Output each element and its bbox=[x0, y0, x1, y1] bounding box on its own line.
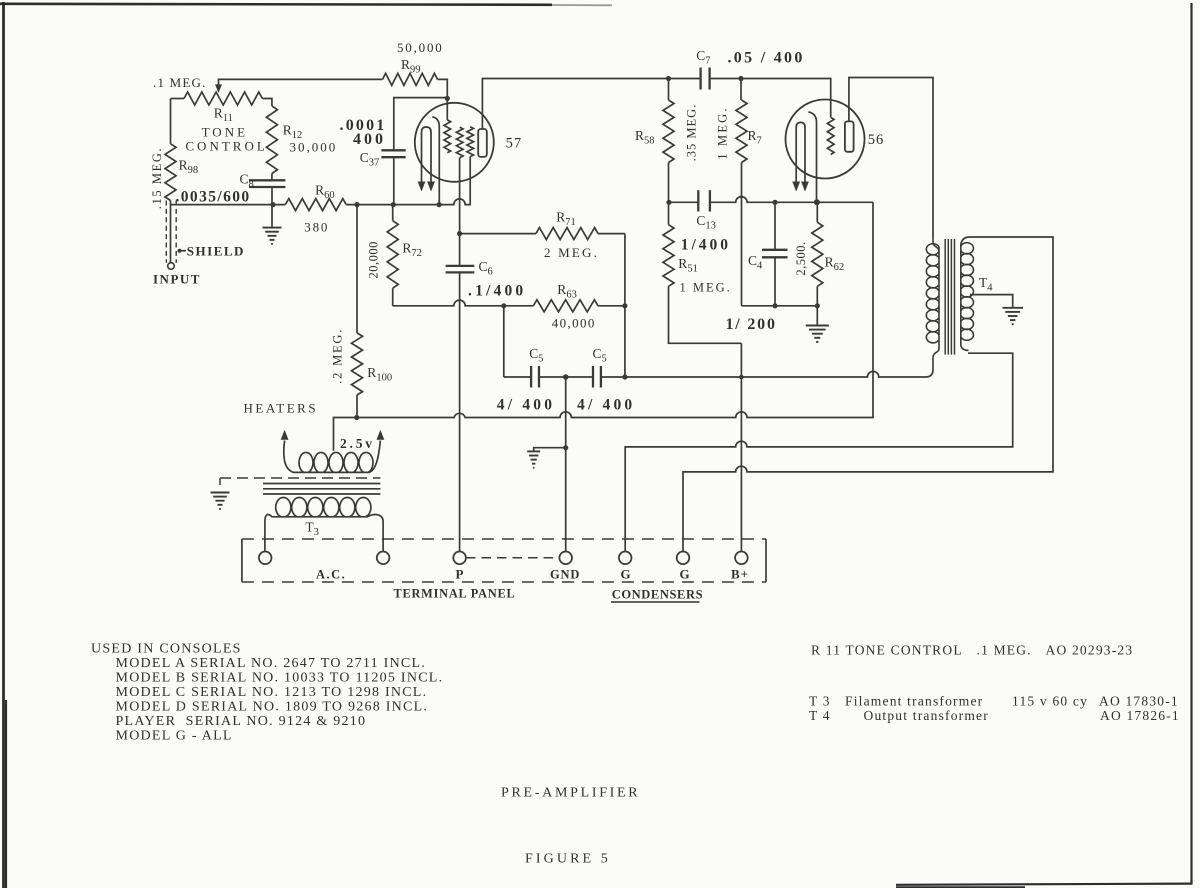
node: junction R100 / heater bus bbox=[354, 415, 359, 420]
svg-text:400: 400 bbox=[353, 131, 386, 148]
ground below R62 bbox=[806, 306, 829, 342]
svg-text:CONTROL: CONTROL bbox=[185, 139, 267, 154]
wire R63 right to vertical bbox=[598, 305, 625, 307]
FIGURE 5 caption bbox=[525, 852, 611, 867]
T4 label bbox=[979, 275, 993, 294]
C5 first label bbox=[529, 346, 543, 365]
svg-text:1/400: 1/400 bbox=[681, 237, 731, 254]
CONDENSERS label bbox=[611, 588, 703, 603]
R98 label bbox=[179, 158, 199, 177]
svg-text:R 11 TONE CONTROL .1 MEG.: R 11 TONE CONTROL .1 MEG. AO 20293-23 bbox=[811, 643, 1133, 658]
main grid bus wire (left) bbox=[171, 157, 471, 205]
svg-text:G: G bbox=[680, 567, 690, 582]
node: junction cathode 57 / grid bus bbox=[437, 202, 442, 207]
potentiometer R11 (tone control) bbox=[171, 92, 272, 144]
wire R99 right end down to grid node of tube 57 bbox=[438, 79, 448, 96]
svg-text:T4: T4 bbox=[979, 275, 993, 294]
SHIELD label bbox=[187, 243, 245, 258]
svg-text:USED IN CONSOLES: USED IN CONSOLES bbox=[91, 642, 242, 657]
svg-text:R12: R12 bbox=[283, 123, 303, 142]
transformer T3 core bbox=[263, 484, 380, 495]
resistor R71 bbox=[536, 228, 598, 240]
node: junction R100 / grid bus bbox=[354, 202, 359, 207]
wire 1/200 row bbox=[742, 305, 818, 307]
transformer T3 2.5v winding bbox=[281, 430, 385, 473]
node: junction R58/R51/C13 bbox=[666, 200, 671, 205]
node: junction C4 bottom bbox=[772, 303, 777, 308]
svg-text:.1 MEG.: .1 MEG. bbox=[153, 75, 207, 90]
R72 label bbox=[402, 241, 422, 260]
resistor R58 bbox=[663, 79, 674, 203]
tube 57 suppressor grid bbox=[467, 127, 474, 157]
TERMINAL PANEL label bbox=[394, 587, 516, 601]
capacitor C37 bbox=[381, 150, 405, 204]
T3 part note bbox=[809, 694, 1179, 709]
svg-text:C5: C5 bbox=[593, 346, 607, 365]
svg-text:Filament transformer: Filament transformer bbox=[845, 694, 983, 709]
svg-text:.05 / 400: .05 / 400 bbox=[728, 50, 805, 67]
A.C. label bbox=[316, 568, 346, 582]
R51 value 1 MEG. bbox=[680, 281, 732, 295]
svg-text:C8: C8 bbox=[240, 172, 254, 191]
R72 value 20,000 bbox=[367, 241, 381, 278]
used-in-consoles text block bbox=[91, 642, 443, 744]
C5 second label bbox=[593, 346, 607, 365]
resistor R60 bbox=[285, 199, 346, 211]
svg-text:T3: T3 bbox=[305, 520, 319, 539]
tube 57 plate bbox=[478, 129, 487, 157]
svg-text:TERMINAL PANEL: TERMINAL PANEL bbox=[394, 587, 516, 601]
G first label bbox=[621, 567, 631, 582]
T4 center tap to ground bbox=[970, 295, 1023, 325]
svg-text:4/ 400: 4/ 400 bbox=[577, 397, 635, 414]
resistor R7 bbox=[736, 79, 747, 306]
svg-text:G: G bbox=[621, 567, 631, 582]
wire C6 down to terminal P bbox=[459, 272, 461, 551]
svg-text:R71: R71 bbox=[556, 210, 576, 229]
svg-text:2 MEG.: 2 MEG. bbox=[544, 245, 599, 260]
resistor R98 bbox=[165, 144, 176, 201]
svg-text:C5: C5 bbox=[529, 346, 543, 365]
wire C7 to grid of tube 56 bbox=[710, 79, 831, 118]
svg-text:.0035/600: .0035/600 bbox=[176, 189, 251, 206]
wire GND riser to chassis ground bbox=[527, 448, 566, 468]
svg-text:AO 17826-1: AO 17826-1 bbox=[1100, 708, 1180, 723]
R98 value .15 MEG. bbox=[150, 147, 164, 209]
resistor R72 bbox=[387, 205, 398, 306]
capacitor C13 bbox=[698, 190, 710, 211]
P label bbox=[456, 567, 464, 582]
node: junction R62 bottom bbox=[815, 303, 820, 308]
R7 value 1 MEG. bbox=[715, 106, 729, 159]
GND label bbox=[550, 568, 580, 582]
svg-text:MODEL D SERIAL NO. 1809 TO 926: MODEL D SERIAL NO. 1809 TO 9268 INCL. bbox=[116, 700, 429, 715]
svg-text:SHIELD: SHIELD bbox=[187, 243, 245, 258]
svg-text:20,000: 20,000 bbox=[367, 241, 381, 278]
tube 56 envelope bbox=[786, 100, 865, 179]
svg-text:115 v 60 cy: 115 v 60 cy bbox=[1012, 694, 1088, 709]
C4 value 1/200 bbox=[726, 316, 777, 333]
svg-text:T 3: T 3 bbox=[809, 694, 831, 709]
svg-text:GND: GND bbox=[550, 568, 580, 582]
transformer T4 secondary winding bbox=[961, 243, 974, 351]
wire plate of 56 to T4 primary bbox=[849, 78, 933, 238]
tube 56 plate bbox=[845, 121, 854, 151]
plate rail of tube 57 to C7 bbox=[482, 79, 700, 130]
svg-text:HEATERS: HEATERS bbox=[244, 401, 319, 416]
svg-text:30,000: 30,000 bbox=[290, 140, 338, 155]
INPUT label bbox=[153, 272, 201, 287]
wire rail R72 to R63 row bbox=[393, 300, 534, 306]
svg-text:.1/400: .1/400 bbox=[468, 283, 526, 300]
svg-text:56: 56 bbox=[868, 132, 885, 148]
wire R12 to capacitor C8 bbox=[271, 174, 273, 181]
node: C5 midpoint junction bbox=[563, 374, 569, 380]
wire C5 midpoint down to GND terminal bbox=[565, 377, 567, 552]
svg-text:.2 MEG.: .2 MEG. bbox=[331, 328, 345, 384]
svg-text:A.C.: A.C. bbox=[316, 568, 346, 582]
T3 2.5v label bbox=[340, 436, 375, 451]
svg-text:PLAYER SERIAL NO. 9124 & 9210: PLAYER SERIAL NO. 9124 & 9210 bbox=[116, 714, 367, 729]
R11 part note bbox=[811, 643, 1133, 658]
wire R71/R63 right vertical to C5 bus bbox=[624, 234, 626, 377]
C13 label bbox=[696, 213, 716, 232]
resistor R63 bbox=[533, 300, 598, 312]
node: junction cathode 56 / R62 bbox=[814, 199, 820, 205]
capacitor C4 bbox=[762, 202, 788, 305]
capacitor C6 bbox=[446, 266, 475, 273]
wire R71 row bbox=[460, 233, 625, 235]
resistor R12 bbox=[266, 106, 277, 174]
svg-text:50,000: 50,000 bbox=[397, 40, 444, 55]
transformer T4 core bbox=[945, 239, 954, 355]
terminal A.C. right bbox=[377, 552, 390, 565]
svg-text:C7: C7 bbox=[696, 48, 710, 67]
R12 label bbox=[283, 123, 303, 142]
C13 value 1/400 bbox=[681, 237, 731, 254]
R51 label bbox=[678, 256, 698, 275]
svg-text:1 MEG.: 1 MEG. bbox=[680, 281, 732, 295]
wire B+ riser bbox=[740, 343, 742, 551]
svg-text:R72: R72 bbox=[402, 241, 422, 260]
R62 label bbox=[825, 255, 845, 274]
input lead and jack bbox=[168, 201, 175, 270]
capacitor C5 (second) bbox=[593, 366, 601, 388]
terminal B+ bbox=[735, 552, 748, 565]
R100 value .2 MEG. bbox=[331, 328, 345, 384]
svg-text:TONE: TONE bbox=[202, 125, 248, 140]
label TONE CONTROL bbox=[185, 125, 267, 154]
svg-text:57: 57 bbox=[506, 136, 522, 152]
tube 57 heater filament bbox=[418, 127, 435, 192]
terminal row dashed link P to GND bbox=[466, 557, 559, 559]
R62 value 2,500. bbox=[794, 241, 808, 275]
svg-text:R99: R99 bbox=[401, 57, 421, 76]
capacitor C7 bbox=[701, 68, 710, 90]
svg-text:Output transformer: Output transformer bbox=[864, 708, 989, 723]
resistor R51 bbox=[663, 202, 741, 343]
svg-text:R63: R63 bbox=[557, 282, 577, 301]
svg-text:C13: C13 bbox=[696, 213, 716, 232]
node: junction R63 right bbox=[622, 303, 627, 308]
capacitor C5 (first) bbox=[531, 366, 539, 388]
svg-text:.15 MEG.: .15 MEG. bbox=[150, 147, 164, 209]
R58 value .35 MEG. bbox=[685, 104, 699, 162]
svg-text:1/ 200: 1/ 200 bbox=[726, 316, 777, 333]
R99 label bbox=[401, 57, 421, 76]
tube 56 label bbox=[868, 132, 885, 148]
terminal P bbox=[453, 552, 466, 565]
node: junction C37-R72 / grid bus bbox=[391, 202, 396, 207]
R58 label bbox=[635, 128, 655, 147]
T3 label bbox=[305, 520, 319, 539]
tube 57 envelope bbox=[415, 103, 494, 182]
terminal G (second) bbox=[677, 552, 690, 565]
resistor R100 bbox=[352, 205, 363, 418]
node: junction R71 tap bbox=[457, 231, 462, 236]
svg-text:.35 MEG.: .35 MEG. bbox=[685, 104, 699, 162]
svg-text:40,000: 40,000 bbox=[552, 316, 596, 331]
C5 second value 4/400 bbox=[577, 397, 635, 414]
wire T4 secondary top to terminal G (second) bbox=[683, 237, 1053, 552]
R60 value 380 bbox=[304, 220, 329, 235]
wire T4 secondary bottom to terminal G (first) bbox=[625, 353, 1013, 551]
R11 value .1 MEG. bbox=[153, 75, 207, 90]
T3 electrostatic shield to ground bbox=[211, 478, 381, 509]
svg-text:CONDENSERS: CONDENSERS bbox=[612, 588, 703, 602]
resistor R62 bbox=[812, 202, 823, 305]
terminal GND bbox=[559, 552, 572, 565]
shield (dashed) around input lead bbox=[166, 201, 186, 263]
R63 value 40,000 bbox=[552, 316, 596, 331]
PRE-AMPLIFIER title bbox=[501, 786, 640, 801]
svg-text:MODEL C SERIAL NO. 1213 TO 129: MODEL C SERIAL NO. 1213 TO 1298 INCL. bbox=[116, 685, 428, 700]
tube 57 screen grid bbox=[456, 127, 463, 158]
svg-text:R51: R51 bbox=[678, 256, 698, 275]
R71 label bbox=[556, 210, 576, 229]
svg-text:R11: R11 bbox=[214, 106, 233, 125]
svg-text:INPUT: INPUT bbox=[153, 272, 201, 287]
C7 label bbox=[696, 48, 710, 67]
tube 57 cathode bbox=[432, 117, 439, 205]
node: junction C8 / grid bus bbox=[270, 202, 275, 207]
ground below C8 bbox=[263, 205, 282, 244]
node: junction GND riser / ground tap bbox=[563, 445, 568, 450]
capacitor C8 bbox=[249, 180, 285, 204]
R99 value 50,000 bbox=[397, 40, 444, 55]
HEATERS label bbox=[244, 401, 319, 416]
node: junction R58 top bbox=[666, 76, 671, 81]
wire R63 left drop to C5 bus bbox=[503, 306, 505, 377]
R12 value 30,000 bbox=[290, 140, 338, 155]
svg-text:MODEL G - ALL: MODEL G - ALL bbox=[116, 729, 233, 744]
node: junction R7 top bbox=[738, 76, 743, 81]
tube 56 grid bbox=[827, 117, 834, 154]
C4 label bbox=[748, 253, 763, 272]
R100 label bbox=[367, 365, 392, 384]
svg-text:R62: R62 bbox=[825, 255, 845, 274]
svg-text:1 MEG.: 1 MEG. bbox=[715, 106, 729, 159]
svg-text:R98: R98 bbox=[179, 158, 199, 177]
C5 bus wire bbox=[504, 370, 933, 378]
svg-text:P: P bbox=[456, 567, 464, 582]
node: grid junction of tube 57 bbox=[445, 96, 450, 101]
C8 label bbox=[240, 172, 254, 191]
svg-text:T 4: T 4 bbox=[809, 708, 831, 723]
svg-text:R7: R7 bbox=[748, 128, 762, 147]
wire screen grid of 57 down to C6 bbox=[459, 158, 461, 266]
svg-text:B+: B+ bbox=[731, 567, 749, 582]
R71 value 2 MEG. bbox=[544, 245, 599, 260]
C37 label bbox=[360, 150, 380, 169]
terminal panel outline (dashed) bbox=[242, 539, 766, 582]
svg-text:R60: R60 bbox=[315, 183, 335, 202]
svg-text:C4: C4 bbox=[748, 253, 763, 272]
C5 first value 4/400 bbox=[497, 397, 555, 414]
C6 label bbox=[479, 259, 493, 278]
wire grid node to C37 bbox=[394, 98, 448, 151]
B+ label bbox=[731, 567, 749, 582]
cathode bus of tube 56 bbox=[669, 197, 873, 203]
resistor R99 bbox=[383, 73, 438, 85]
svg-text:MODEL A SERIAL NO. 2647 TO 271: MODEL A SERIAL NO. 2647 TO 2711 INCL. bbox=[116, 656, 427, 671]
svg-text:C6: C6 bbox=[479, 259, 493, 278]
svg-text:380: 380 bbox=[304, 220, 329, 235]
C7 value .05/400 bbox=[728, 50, 805, 67]
tube 56 heater filament bbox=[792, 122, 809, 191]
tube 56 cathode bbox=[808, 112, 816, 202]
R63 label bbox=[557, 282, 577, 301]
C37 value .0001 400 bbox=[340, 117, 387, 148]
node: junction C5 bus / R63 vertical bbox=[622, 374, 627, 379]
svg-text:2.5v: 2.5v bbox=[340, 436, 375, 451]
svg-text:AO 17830-1: AO 17830-1 bbox=[1099, 694, 1179, 709]
svg-text:2,500.: 2,500. bbox=[794, 241, 808, 275]
transformer T3 primary winding bbox=[265, 497, 383, 551]
terminal G (first) bbox=[619, 552, 632, 565]
wire from R11 wiper up to top rail toward R99 bbox=[215, 79, 383, 93]
G second label bbox=[680, 567, 690, 582]
heater bus wire bbox=[334, 202, 874, 450]
node: junction C4 top bbox=[772, 200, 777, 205]
svg-text:C37: C37 bbox=[360, 150, 380, 169]
svg-text:MODEL B SERIAL NO. 10033 TO 11: MODEL B SERIAL NO. 10033 TO 11205 INCL. bbox=[116, 671, 444, 686]
svg-text:4/ 400: 4/ 400 bbox=[497, 397, 555, 414]
svg-text:R58: R58 bbox=[635, 128, 655, 147]
transformer T4 primary winding bbox=[926, 238, 939, 370]
tube 57 label bbox=[506, 136, 522, 152]
tube 57 control grid bbox=[444, 98, 451, 152]
node: junction R63 left bbox=[501, 303, 506, 308]
C6 value .1/400 bbox=[468, 283, 526, 300]
svg-text:FIGURE 5: FIGURE 5 bbox=[525, 852, 611, 867]
svg-text:PRE-AMPLIFIER: PRE-AMPLIFIER bbox=[501, 786, 640, 801]
svg-text:R100: R100 bbox=[367, 365, 392, 384]
R11 label bbox=[214, 106, 233, 125]
R60 label bbox=[315, 183, 335, 202]
R7 label bbox=[748, 128, 762, 147]
C8 value .0035/600 bbox=[176, 189, 251, 206]
T4 part note bbox=[809, 708, 1180, 723]
node: junction C5 bus / B+ riser bbox=[739, 375, 744, 380]
terminal A.C. left bbox=[259, 552, 272, 565]
